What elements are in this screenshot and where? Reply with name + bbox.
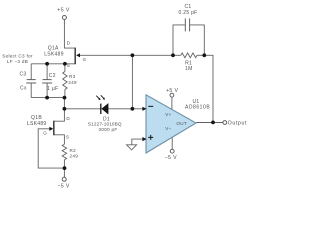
svg-text:Output: Output (228, 120, 248, 126)
svg-text:C3: C3 (20, 72, 27, 78)
svg-text:C2: C2 (49, 73, 56, 79)
terminal -5V Q1B (62, 177, 66, 181)
wire op-amp V- (171, 137, 173, 149)
svg-text:249: 249 (68, 80, 77, 85)
capacitor C2 (42, 80, 52, 83)
svg-text:−5 V: −5 V (57, 184, 70, 190)
svg-text:V+: V+ (165, 112, 171, 117)
wire bottom rail to photodiode node (63, 98, 65, 109)
wire +5V to Q1A drain (64, 20, 75, 48)
label op-amp pins (165, 112, 187, 131)
svg-text:R3: R3 (69, 74, 76, 79)
svg-text:LSK489: LSK489 (44, 52, 64, 58)
svg-text:Select C3 for: Select C3 for (2, 54, 33, 59)
wire output (196, 122, 223, 124)
svg-text:1 μF: 1 μF (47, 86, 58, 92)
wire Q1A source rail (31, 63, 75, 65)
svg-text:+5 V: +5 V (57, 8, 70, 14)
svg-text:G: G (83, 57, 87, 62)
svg-text:D: D (66, 116, 70, 121)
wire Q1A gate rail (80, 54, 173, 56)
svg-text:OUT: OUT (176, 121, 187, 126)
svg-text:LSK489: LSK489 (27, 121, 47, 127)
ground (127, 145, 137, 150)
wire C1 loop (173, 25, 185, 55)
svg-text:0.25 pF: 0.25 pF (178, 10, 197, 16)
terminal Output (223, 121, 227, 125)
svg-text:S: S (67, 63, 70, 68)
svg-text:1M: 1M (185, 66, 193, 72)
resistor R3 (63, 72, 67, 90)
label Q1B pins (43, 116, 70, 139)
capacitor C1 (185, 18, 189, 31)
svg-text:−5 V: −5 V (165, 155, 178, 161)
wire photodiode right (108, 108, 143, 110)
wire C2 branch (46, 64, 48, 80)
terminal +5V op-amp (170, 93, 174, 97)
svg-text:S: S (66, 135, 69, 140)
svg-text:V−: V− (165, 126, 171, 131)
wire photodiode left (64, 108, 100, 110)
wire Q1B drain (54, 109, 65, 121)
svg-text:AD8610B: AD8610B (185, 104, 210, 110)
svg-text:LF −3 dB: LF −3 dB (7, 59, 28, 64)
wire cap bottom rail (31, 97, 64, 99)
resistor R2 (62, 144, 66, 160)
transistor Q1A (75, 48, 80, 65)
wire C3 branch (30, 64, 32, 80)
svg-text:G: G (43, 130, 47, 135)
svg-text:Cx: Cx (20, 85, 27, 91)
resistor R1 (181, 53, 197, 58)
capacitor C3 (26, 80, 36, 83)
wire op-amp + input from ground (132, 139, 143, 145)
transistor Q1B (49, 121, 54, 136)
svg-text:3000 pF: 3000 pF (99, 127, 118, 132)
node junction dots (45, 53, 215, 170)
wire R3 leads (64, 64, 66, 72)
wire feedback to output (204, 55, 213, 122)
svg-text:R2: R2 (70, 148, 77, 153)
photodiode D1 (96, 95, 108, 114)
terminal +5V Q1A (62, 16, 66, 20)
wire node A vertical (131, 55, 133, 109)
wire Q1B source to R2 (54, 135, 65, 144)
wire Q1B gate return (38, 129, 64, 168)
op-amp U1 (142, 95, 196, 153)
svg-text:S1227-1010BQ: S1227-1010BQ (88, 122, 122, 127)
svg-text:D: D (67, 40, 71, 45)
wire R2 to -5V (63, 160, 65, 178)
terminal -5V op-amp (170, 149, 174, 153)
label Q1A pins (67, 40, 87, 68)
wire op-amp V+ (171, 97, 173, 110)
svg-text:+5 V: +5 V (166, 88, 179, 94)
wire R1 leads (173, 54, 181, 56)
svg-text:249: 249 (70, 154, 79, 159)
